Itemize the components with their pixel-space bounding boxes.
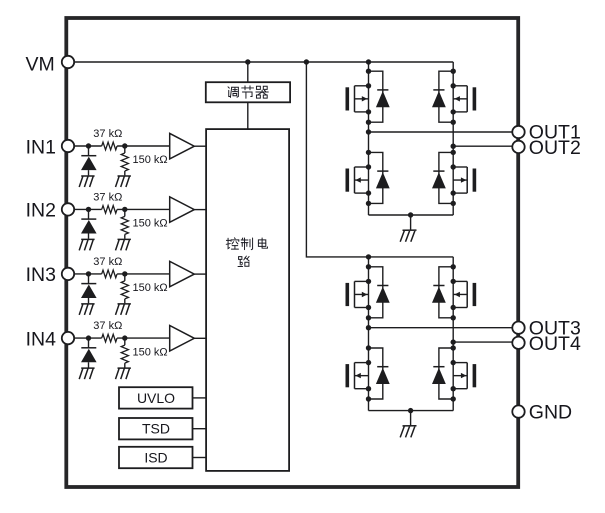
svg-text:37 kΩ: 37 kΩ (93, 320, 122, 332)
svg-text:OUT4: OUT4 (529, 333, 581, 355)
IC boundary box (66, 18, 518, 487)
junction IN2 ESD diode (86, 207, 91, 212)
ground of 150k row 3 (116, 304, 131, 315)
svg-text:IN2: IN2 (26, 200, 56, 222)
label 控制电路 char 制 (241, 238, 252, 250)
junction IN1 ESD diode (86, 143, 91, 148)
control circuit box (206, 129, 289, 471)
svg-text:TSD: TSD (142, 421, 170, 437)
UVLO box (119, 387, 193, 408)
ESD diode IN2 (88, 209, 90, 219)
wire bridgeA bottom rail (369, 214, 454, 216)
ground of ESD diode IN2 (79, 239, 94, 250)
svg-text:GND: GND (529, 402, 572, 424)
buffer amplifier row 2 (170, 197, 195, 223)
junction IN3 pulldown (122, 271, 127, 276)
svg-text:37 kΩ: 37 kΩ (93, 128, 122, 140)
ground of ESD diode IN1 (79, 176, 94, 187)
wire regulator to control circuit (247, 102, 249, 129)
junction IN4 pulldown (122, 335, 127, 340)
junction dots bridge B rails (366, 264, 371, 269)
label 控制电路 char 电 (258, 238, 267, 248)
junction IN3 ESD diode (86, 271, 91, 276)
junction VM-regulator (245, 59, 250, 64)
transistor Q2 (bridge A high-side right) (432, 71, 476, 122)
junction IN2 pulldown (122, 207, 127, 212)
junction OUT3 on left rail (366, 325, 371, 330)
svg-text:37 kΩ: 37 kΩ (93, 191, 122, 203)
ground of ESD diode IN3 (79, 304, 94, 315)
transistor Q5 (bridge B high-side left) (346, 267, 390, 318)
wire OUT2 (453, 145, 512, 147)
svg-text:VM: VM (26, 53, 55, 75)
svg-text:37 kΩ: 37 kΩ (93, 256, 122, 268)
transistor Q7 (bridge B low-side left) (346, 348, 390, 399)
wire bridgeB ground stem (410, 411, 412, 426)
svg-text:150 kΩ: 150 kΩ (133, 346, 168, 358)
svg-text:IN1: IN1 (26, 136, 56, 158)
pin OUT3 (512, 322, 524, 334)
transistor Q8 (bridge B low-side right) (432, 348, 476, 399)
transistor Q6 (bridge B high-side right) (432, 267, 476, 318)
junction IN1 pulldown (122, 143, 127, 148)
buffer amplifier row 4 (170, 326, 195, 352)
junction OUT2 on right rail (451, 144, 456, 149)
wire bridgeB right rail (452, 257, 454, 411)
wire OUT3 (369, 327, 513, 329)
wire IN4 input segment (68, 337, 102, 339)
pin OUT1 (512, 126, 524, 138)
transistor Q4 (bridge A low-side right) (432, 152, 476, 203)
wire bridgeB left rail (368, 257, 370, 411)
resistor 37k row 3 (102, 270, 117, 278)
svg-text:ISD: ISD (144, 450, 167, 466)
wire IN2 input segment (68, 208, 102, 210)
wire OUT4 (453, 341, 512, 343)
ESD diode IN1 (88, 146, 90, 156)
transistor Q1 (bridge A high-side left) (346, 71, 390, 122)
resistor 37k row 4 (102, 334, 117, 342)
transistor Q3 (bridge A low-side left) (346, 152, 390, 203)
svg-text:150 kΩ: 150 kΩ (133, 282, 168, 294)
wire buffer2 to control (194, 209, 206, 211)
wire bridgeA right rail (452, 62, 454, 215)
junction bridgeB top rail (366, 254, 371, 259)
label 调节器 char 节 (242, 86, 254, 98)
wire buffer4 to control (194, 337, 206, 339)
TSD box (119, 418, 193, 439)
svg-text:150 kΩ: 150 kΩ (133, 218, 168, 230)
svg-text:IN4: IN4 (26, 328, 57, 350)
ground of 150k row 2 (116, 239, 131, 250)
junction IN4 ESD diode (86, 335, 91, 340)
ESD diode IN3 (88, 274, 90, 284)
wire buffer3 to control (194, 273, 206, 275)
junction VM-bridgeA left rail (366, 59, 371, 64)
resistor 150k row 1 (124, 146, 126, 153)
ground of bridge A (400, 230, 416, 242)
wire IN1 input segment (68, 145, 102, 147)
ISD box (119, 447, 193, 468)
pin GND (512, 405, 524, 417)
pin VM (62, 56, 74, 68)
wire bridgeA left rail (368, 62, 370, 215)
junction bridgeB ground (408, 408, 413, 413)
resistor 150k row 3 (124, 274, 126, 281)
svg-text:UVLO: UVLO (137, 390, 175, 406)
wire bridgeB bottom rail (369, 410, 454, 412)
ground of 150k row 1 (116, 176, 131, 187)
junction OUT4 on right rail (451, 339, 456, 344)
pin IN2 (62, 203, 74, 215)
ESD diode IN4 (88, 338, 90, 348)
svg-text:IN3: IN3 (26, 264, 56, 286)
junction bridgeA ground (408, 212, 413, 217)
ground of 150k row 4 (116, 368, 131, 379)
label 调节器 char 器 (256, 86, 268, 98)
label 调节器 char 调 (228, 87, 238, 98)
resistor 37k row 2 (102, 206, 117, 214)
pin OUT2 (512, 141, 524, 153)
resistor 150k row 4 (124, 338, 126, 345)
wire UVLO to control (193, 397, 207, 399)
wire bridgeA ground stem (410, 215, 412, 230)
buffer amplifier row 3 (170, 261, 195, 287)
wire IN3 input segment (68, 273, 102, 275)
label 控制电路 char 路 (238, 256, 249, 266)
label 控制电路 char 控 (226, 238, 239, 249)
junction VM-bridgeB branch (304, 59, 309, 64)
svg-text:150 kΩ: 150 kΩ (133, 154, 168, 166)
pin IN3 (62, 268, 74, 280)
pin OUT4 (512, 337, 524, 349)
junction dots bridge A rails (366, 69, 371, 74)
svg-text:OUT2: OUT2 (529, 137, 581, 159)
wire TSD to control (193, 428, 207, 430)
pin IN1 (62, 140, 74, 152)
resistor 37k row 1 (102, 142, 117, 150)
buffer amplifier row 1 (170, 133, 195, 159)
wire OUT1 (369, 131, 513, 133)
pin IN4 (62, 332, 74, 344)
junction OUT1 on left rail (366, 129, 371, 134)
wire VM branch to bridge B (306, 62, 453, 257)
wire buffer1 to control (194, 145, 206, 147)
resistor 150k row 2 (124, 209, 126, 216)
ground of bridge B (400, 426, 416, 438)
wire VM rail (68, 61, 453, 63)
wire ISD to control (193, 457, 207, 459)
wire VM to regulator (247, 62, 249, 82)
regulator box (206, 82, 290, 102)
ground of ESD diode IN4 (79, 368, 94, 379)
